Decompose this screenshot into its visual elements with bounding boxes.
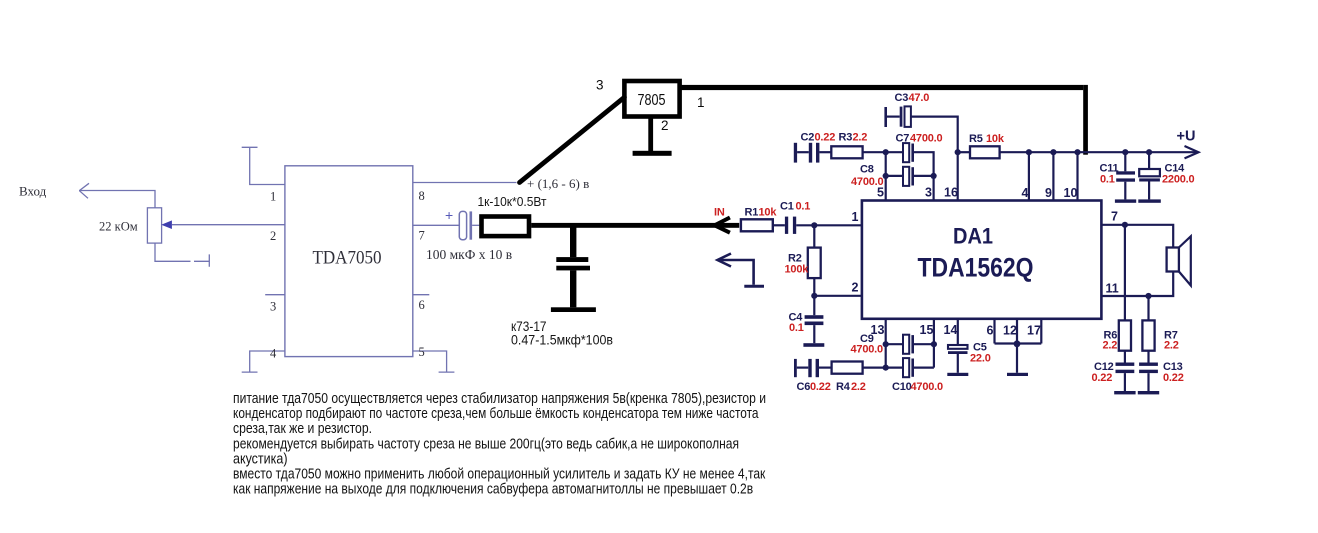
svg-text:0.22: 0.22 (1163, 372, 1184, 384)
label 1 of 7805 (697, 95, 705, 110)
pin 7 wire (1101, 225, 1173, 248)
svg-text:7805: 7805 (638, 92, 666, 109)
svg-text:1: 1 (697, 95, 705, 110)
pin numbers DA1 (852, 186, 1119, 338)
svg-text:C1: C1 (780, 201, 794, 213)
svg-text:47.0: 47.0 (909, 92, 930, 104)
svg-text:5: 5 (419, 345, 425, 359)
IC labels DA1 TDA1562Q (918, 224, 1034, 283)
pin 8 wire (413, 182, 517, 184)
label R6 2.2 (1103, 330, 1118, 352)
svg-text:Вход: Вход (19, 184, 47, 199)
svg-text:1: 1 (852, 210, 859, 224)
resistor R7 (1142, 296, 1154, 351)
label C5 22.0 (970, 342, 991, 365)
svg-text:8: 8 (419, 189, 425, 203)
svg-text:2.2: 2.2 (1103, 340, 1118, 352)
rail pin 9 (1052, 152, 1054, 200)
svg-text:6: 6 (419, 298, 425, 312)
svg-text:3: 3 (270, 300, 276, 314)
svg-text:0.22: 0.22 (810, 381, 831, 393)
svg-text:2200.0: 2200.0 (1162, 174, 1195, 186)
node input arrow Вход (79, 183, 155, 208)
svg-text:+: + (445, 207, 453, 223)
capacitor C14 electrolytic to ground (1138, 152, 1161, 203)
pin 6 stub (413, 294, 430, 296)
svg-text:IN: IN (714, 207, 725, 219)
label R5 10k (969, 133, 1005, 145)
voltage regulator 7805 box (624, 81, 679, 117)
svg-text:4700.0: 4700.0 (910, 133, 943, 145)
svg-text:9: 9 (1045, 186, 1052, 200)
svg-text:DA1: DA1 (953, 224, 993, 249)
arrow IN (black arrowhead) (715, 218, 730, 233)
svg-text:0.47-1.5мкф*100в: 0.47-1.5мкф*100в (511, 332, 613, 348)
capacitor C8 (886, 167, 934, 186)
svg-text:3: 3 (596, 78, 604, 93)
label C11 0.1 (1100, 163, 1119, 186)
svg-text:C10: C10 (892, 381, 912, 393)
svg-text:2: 2 (270, 229, 276, 243)
svg-text:6: 6 (987, 324, 994, 338)
capacitor C6 with left tick (794, 359, 832, 377)
wire speaker bottom to pin 11 (1101, 272, 1173, 297)
svg-text:12: 12 (1003, 324, 1017, 338)
svg-text:TDA7050: TDA7050 (313, 248, 382, 269)
pin 7 wire (413, 224, 460, 226)
label 3 of 7805 (596, 78, 604, 93)
label C3 47.0 (895, 92, 930, 104)
svg-text:16: 16 (944, 186, 958, 200)
label C12 0.22 (1092, 361, 1114, 384)
label C7 4700.0 (896, 133, 943, 145)
capacitor C11 to ground (1115, 152, 1136, 203)
node dot C9 left (883, 341, 889, 347)
svg-text:4700.0: 4700.0 (911, 381, 944, 393)
svg-text:5: 5 (877, 186, 884, 200)
svg-text:R3: R3 (839, 132, 853, 144)
pin 3 stub (265, 294, 285, 296)
ground arrow symbol under IN (718, 254, 765, 287)
label +U (1177, 129, 1196, 145)
resistor R1 (741, 219, 773, 231)
text 22 кОм (99, 219, 138, 234)
rail pin 10 (1076, 152, 1078, 200)
op-amp U TDA7050 body (285, 166, 413, 357)
svg-text:2.2: 2.2 (1164, 340, 1179, 352)
label C14 2200.0 (1162, 163, 1195, 186)
node dot pin16 (955, 149, 961, 155)
capacitor 100uF electrolytic (459, 211, 479, 239)
label C6 0.22 R4 2.2 C10 4700.0 (797, 381, 944, 393)
capacitor C4 with bottom tick (803, 296, 824, 347)
wire C1 to pin 1 (814, 224, 862, 226)
rails pins 6 12 17 joined to ground (995, 319, 1042, 376)
svg-text:13: 13 (871, 323, 885, 337)
label C2 0.22 R3 2.2 (801, 132, 868, 144)
text 100 мкФ х 10 в (426, 247, 512, 262)
label C9 4700.0 (851, 333, 884, 356)
resistor R5 (958, 146, 1000, 158)
svg-text:4: 4 (1022, 186, 1029, 200)
svg-text:+U: +U (1177, 129, 1196, 145)
rail pin 5 (885, 152, 887, 200)
node dots pins 4 9 10 (1026, 149, 1081, 155)
svg-text:11: 11 (1106, 282, 1119, 296)
capacitor C5 electrolytic to ground (947, 319, 968, 376)
label 2 of 7805 (661, 118, 669, 133)
svg-text:+ (1,6 - 6) в: + (1,6 - 6) в (527, 176, 589, 191)
wire potentiometer bottom with end tick (155, 243, 209, 267)
arrow +U (1185, 146, 1199, 158)
node dot pin12 (1014, 340, 1021, 347)
node dot C8 left (883, 173, 889, 179)
svg-text:C7: C7 (896, 133, 910, 145)
svg-text:2: 2 (661, 118, 669, 133)
ground under 7805 (633, 117, 672, 156)
capacitor C10 (886, 358, 934, 377)
wire +U rail (1000, 151, 1198, 153)
wire to pin 2 (814, 295, 862, 297)
svg-text:2.2: 2.2 (853, 132, 868, 144)
node dot C9 right (931, 341, 937, 347)
rail pin 4 (1028, 152, 1030, 200)
rail pin 15 (933, 319, 935, 368)
text к73-17 (511, 318, 547, 334)
svg-text:C6: C6 (797, 381, 811, 393)
resistor R2 vertical (808, 225, 821, 295)
node dot pin11/R7 (1145, 293, 1151, 299)
capacitor C9 (886, 335, 934, 354)
svg-text:0.1: 0.1 (1100, 174, 1115, 186)
node dot pin5 rail top (883, 149, 889, 155)
node dot at C1/R2 (811, 222, 817, 228)
node dot C8 right / pin3 rail (931, 173, 937, 179)
capacitor C7 (886, 143, 934, 200)
capacitor C1 (785, 217, 814, 234)
wire thick top from 7805 output to +U rail (680, 85, 1088, 155)
svg-text:0.1: 0.1 (789, 322, 804, 334)
svg-text:1к-10к*0.5Вт: 1к-10к*0.5Вт (478, 194, 547, 209)
svg-text:10: 10 (1064, 186, 1078, 200)
label C1 0.1 (780, 201, 810, 213)
pin 1 wire with top tick (242, 147, 285, 184)
pin 4 wire with bottom tick (242, 351, 285, 372)
svg-text:0.22: 0.22 (815, 132, 836, 144)
svg-text:100 мкФ х 10 в: 100 мкФ х 10 в (426, 247, 512, 262)
svg-text:2: 2 (852, 281, 859, 295)
svg-text:2.2: 2.2 (851, 381, 866, 393)
svg-text:7: 7 (1111, 210, 1118, 224)
label R7 2.2 (1164, 330, 1179, 352)
resistor R3 (831, 146, 862, 158)
plus sign of 100uF cap (445, 207, 453, 223)
label R2 100k (785, 253, 810, 276)
text + (1,6 - 6) в (527, 176, 589, 191)
text 1к-10к*0.5Вт (478, 194, 547, 209)
text Вход (19, 184, 47, 199)
svg-text:4700.0: 4700.0 (851, 344, 884, 356)
wire thick from resistor to IN arrow (531, 223, 739, 228)
svg-text:1: 1 (270, 190, 276, 204)
pin 5 wire with bottom tick (413, 351, 455, 372)
svg-text:R5: R5 (969, 133, 983, 145)
svg-text:как напряжение на выходе для п: как напряжение на выходе для подключения… (233, 481, 753, 498)
bottom note text (233, 390, 766, 498)
node dot R2 bottom / pin 2 (811, 293, 817, 299)
svg-text:0.22: 0.22 (1092, 372, 1113, 384)
wire R3 to pin5 rail (863, 151, 886, 153)
node dot pin7/R6 (1122, 222, 1128, 228)
potentiometer 22 кОм (147, 208, 161, 243)
pin numbers TDA7050 (270, 189, 425, 361)
svg-text:C3: C3 (895, 92, 909, 104)
label C13 0.22 (1163, 361, 1184, 384)
svg-text:15: 15 (920, 323, 934, 337)
IC DA1 TDA1562Q body (862, 201, 1102, 319)
resistor 1к-10к (482, 217, 530, 237)
rail pin 16 (957, 152, 959, 200)
node dot C10 left (883, 365, 889, 371)
svg-text:TDA1562Q: TDA1562Q (918, 253, 1034, 283)
svg-text:R4: R4 (836, 381, 851, 393)
label R1 10k (745, 207, 778, 219)
text TDA7050 (313, 248, 382, 269)
capacitor C2 with left tick (794, 143, 832, 163)
resistor R4 (832, 362, 886, 374)
wire thick diagonal from 7805 pin3 down to pin8 node (520, 97, 625, 182)
wire R1 to C1 (773, 224, 785, 226)
capacitor C12 to ground (1114, 351, 1135, 395)
capacitor к73-17 to ground (551, 225, 596, 312)
svg-text:3: 3 (925, 186, 932, 200)
svg-text:0.1: 0.1 (796, 201, 811, 213)
label C8 4700.0 (851, 164, 884, 189)
text 0.47-1.5мкф*100в (511, 332, 613, 348)
svg-text:10k: 10k (986, 133, 1005, 145)
svg-text:C8: C8 (860, 164, 874, 176)
svg-text:17: 17 (1027, 324, 1041, 338)
svg-text:100k: 100k (785, 264, 810, 276)
svg-text:R1: R1 (745, 207, 759, 219)
svg-text:22.0: 22.0 (970, 353, 991, 365)
svg-text:14: 14 (944, 323, 958, 337)
svg-text:4: 4 (270, 347, 277, 361)
node dots C11 C14 (1122, 149, 1152, 155)
capacitor C3 with left tick (884, 106, 957, 152)
wire wiper to pin 2 (162, 221, 285, 228)
label IN (714, 207, 725, 219)
svg-text:C2: C2 (801, 132, 815, 144)
svg-text:рекомендуется выбирать частоту: рекомендуется выбирать частоту среза не … (233, 435, 739, 452)
label C4 0.1 (789, 312, 804, 335)
capacitor C13 to ground (1138, 351, 1159, 395)
svg-text:7: 7 (419, 229, 425, 243)
svg-text:22 кОм: 22 кОм (99, 219, 138, 234)
resistor R6 with stem crossing pin11 wire (1119, 225, 1131, 351)
svg-text:10k: 10k (759, 207, 778, 219)
rail pin 13 (885, 319, 887, 368)
speaker (1167, 236, 1191, 285)
